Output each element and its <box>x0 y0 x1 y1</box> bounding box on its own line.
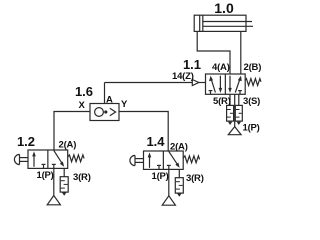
svg-text:3(R): 3(R) <box>73 172 91 183</box>
valve 1.4 left box blocked port 3 <box>157 164 161 166</box>
wire valve 1.4 port 3(R) to silencer <box>178 169 180 177</box>
valve 1.1 body <box>206 74 246 94</box>
valve 1.1 right box path 1 to 2 <box>235 79 240 93</box>
shuttle valve 1.6 ball <box>95 108 104 117</box>
spring of valve 1.2 <box>68 155 84 162</box>
valve 1.4 right box blocked port 1 <box>167 164 171 166</box>
push button of valve 1.4 <box>130 155 135 165</box>
valve 1.1 left box path 2 to 3 <box>219 76 221 90</box>
svg-text:1.4: 1.4 <box>146 134 165 149</box>
silencer at 5(R) <box>227 105 234 121</box>
valve 1.2 body <box>28 150 68 168</box>
svg-text:1.0: 1.0 <box>214 0 234 16</box>
silencer at valve 1.2 port 3(R) <box>60 177 68 192</box>
pilot head 14(Z) of valve 1.1 <box>192 80 199 86</box>
svg-text:1.2: 1.2 <box>17 134 35 149</box>
cylinder 1.0 piston rod <box>203 21 252 23</box>
wire shuttle A output up to pilot line <box>104 83 106 104</box>
wire valve 1.1 port 3(S) to silencer <box>238 94 240 105</box>
wire valve 1.2 port 3(R) to silencer <box>63 168 65 176</box>
wire valve 1.4 port 1(P) to supply <box>168 169 170 196</box>
spring of valve 1.1 <box>245 79 261 86</box>
valve 1.2 right box blocked port 1 <box>52 163 56 165</box>
valve 1.1 right box blocked port 3 <box>238 90 242 92</box>
svg-text:1.6: 1.6 <box>75 84 93 99</box>
svg-text:1(P): 1(P) <box>152 171 169 182</box>
compressed air supply at valve 1.1 port 1(P) <box>228 127 241 135</box>
svg-text:2(A): 2(A) <box>59 140 77 151</box>
valve 1.1 right box path 4 to 5 <box>229 76 231 90</box>
valve 1.4 body <box>144 151 184 169</box>
valve 1.1 left box path 1 to 4 <box>211 79 215 93</box>
svg-text:14(Z): 14(Z) <box>172 71 194 82</box>
shuttle valve 1.6 seat dot <box>104 110 107 113</box>
svg-text:Y: Y <box>121 99 128 110</box>
svg-text:1(P): 1(P) <box>37 170 54 181</box>
wire valve 1.1 port 5(R) to silencer <box>229 94 231 105</box>
push button of valve 1.2 <box>14 154 19 164</box>
valve 1.2 right box path 2 to 3 <box>54 150 62 163</box>
silencer at 3(S) <box>235 105 242 121</box>
valve 1.4 left box path 1 to 2 <box>149 156 151 168</box>
svg-text:3(S): 3(S) <box>243 96 260 107</box>
wire cylinder right port to valve 1.1 port 2(B) <box>240 31 242 74</box>
wire cylinder left port to valve 1.1 port 4(A) <box>197 31 230 74</box>
svg-text:3(R): 3(R) <box>186 173 204 184</box>
valve 1.4 right box path 2 to 3 <box>169 151 178 164</box>
silencer at valve 1.4 port 3(R) <box>175 178 183 193</box>
shuttle valve 1.6 body <box>90 104 119 121</box>
svg-text:A: A <box>106 95 113 106</box>
compressed air supply at valve 1.2 port 1(P) <box>47 196 60 205</box>
cylinder 1.0 body <box>194 15 246 31</box>
svg-text:1.1: 1.1 <box>183 57 201 72</box>
svg-text:2(A): 2(A) <box>170 142 188 153</box>
valve 1.2 left box blocked port 3 <box>42 163 46 165</box>
wire valve 1.2 port 1(P) to supply <box>53 168 55 195</box>
svg-text:4(A): 4(A) <box>212 62 230 73</box>
svg-text:1(P): 1(P) <box>243 123 260 134</box>
valve 1.1 left box blocked port 5 <box>209 90 213 92</box>
svg-text:X: X <box>79 100 86 111</box>
wire valve 1.2 port 2(A) to shuttle X input <box>54 112 90 151</box>
wire shuttle Y input to valve 1.4 port 2(A) <box>119 112 168 152</box>
wire pilot line from shuttle A to 14(Z) <box>105 82 193 84</box>
cylinder 1.0 piston <box>199 15 201 31</box>
svg-text:5(R): 5(R) <box>213 96 231 107</box>
spring of valve 1.4 <box>183 156 199 163</box>
shuttle valve 1.6 flow arrow <box>110 108 116 115</box>
compressed air supply at valve 1.4 port 1(P) <box>162 196 175 205</box>
wire valve 1.1 port 1(P) to supply <box>234 94 236 126</box>
svg-text:2(B): 2(B) <box>244 62 262 73</box>
valve 1.2 left box path 1 to 2 <box>33 155 35 167</box>
